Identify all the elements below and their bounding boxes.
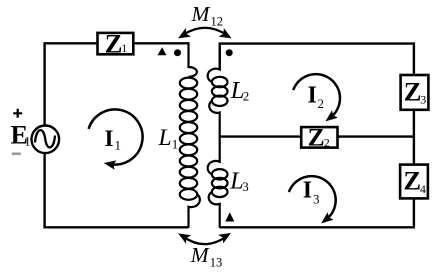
svg-text:1: 1 xyxy=(121,43,127,55)
svg-text:I: I xyxy=(105,126,114,151)
svg-text:2: 2 xyxy=(324,135,330,149)
mutual inductance arrow M13 xyxy=(183,236,228,244)
mutual inductance arrow M12 xyxy=(183,28,227,35)
svg-text:L: L xyxy=(158,125,172,151)
svg-text:1: 1 xyxy=(172,137,179,152)
impedance Z3 xyxy=(401,75,429,110)
svg-text:13: 13 xyxy=(210,256,223,270)
svg-text:2: 2 xyxy=(318,96,325,111)
svg-text:3: 3 xyxy=(242,179,249,194)
svg-text:12: 12 xyxy=(211,15,224,29)
wire right middle: Z3 to Z4 xyxy=(413,110,415,165)
mesh current arrow I1 xyxy=(89,109,143,164)
svg-text:1: 1 xyxy=(115,138,122,153)
mesh current arrow I3 xyxy=(289,176,336,219)
svg-text:3: 3 xyxy=(313,192,320,207)
svg-text:I: I xyxy=(303,178,312,204)
wire middle: coil junction to Z2 xyxy=(220,135,302,137)
wire right bottom: Z4 to corner xyxy=(413,198,415,227)
wire top-right: L2 top to Z3 xyxy=(220,44,414,75)
impedance Z1 xyxy=(98,33,134,54)
svg-text:1: 1 xyxy=(24,134,30,148)
wire middle: Z2 to right wire xyxy=(338,135,414,137)
inductor L1 xyxy=(189,42,200,228)
svg-text:I: I xyxy=(308,82,317,108)
inductor L2 xyxy=(208,44,220,137)
polarity dot at L2 top xyxy=(226,49,233,56)
svg-text:4: 4 xyxy=(420,182,426,196)
polarity triangle at L3 bottom xyxy=(225,212,234,221)
svg-text:M: M xyxy=(190,243,210,267)
svg-text:2: 2 xyxy=(243,89,250,104)
wire top-left: E1 top corner to Z1 xyxy=(45,43,98,126)
wire bottom-right xyxy=(220,226,415,228)
polarity triangle at L1 top xyxy=(158,47,167,55)
svg-text:M: M xyxy=(191,2,211,26)
svg-text:Z: Z xyxy=(403,166,421,196)
svg-text:Z: Z xyxy=(404,77,422,107)
wire bottom-left xyxy=(45,152,189,227)
svg-text:Z: Z xyxy=(308,123,325,152)
mesh current arrow I2 xyxy=(293,74,340,117)
wire Z1 to L1 top xyxy=(134,42,188,44)
impedance Z2 xyxy=(301,127,337,148)
voltage source E1 xyxy=(32,126,60,154)
impedance Z4 xyxy=(400,165,428,199)
plus sign xyxy=(13,109,22,118)
polarity dot at L1 top xyxy=(174,49,181,56)
inductor L3 xyxy=(208,136,220,228)
svg-text:Z: Z xyxy=(105,28,123,58)
svg-text:3: 3 xyxy=(420,93,426,107)
minus sign xyxy=(12,153,21,156)
